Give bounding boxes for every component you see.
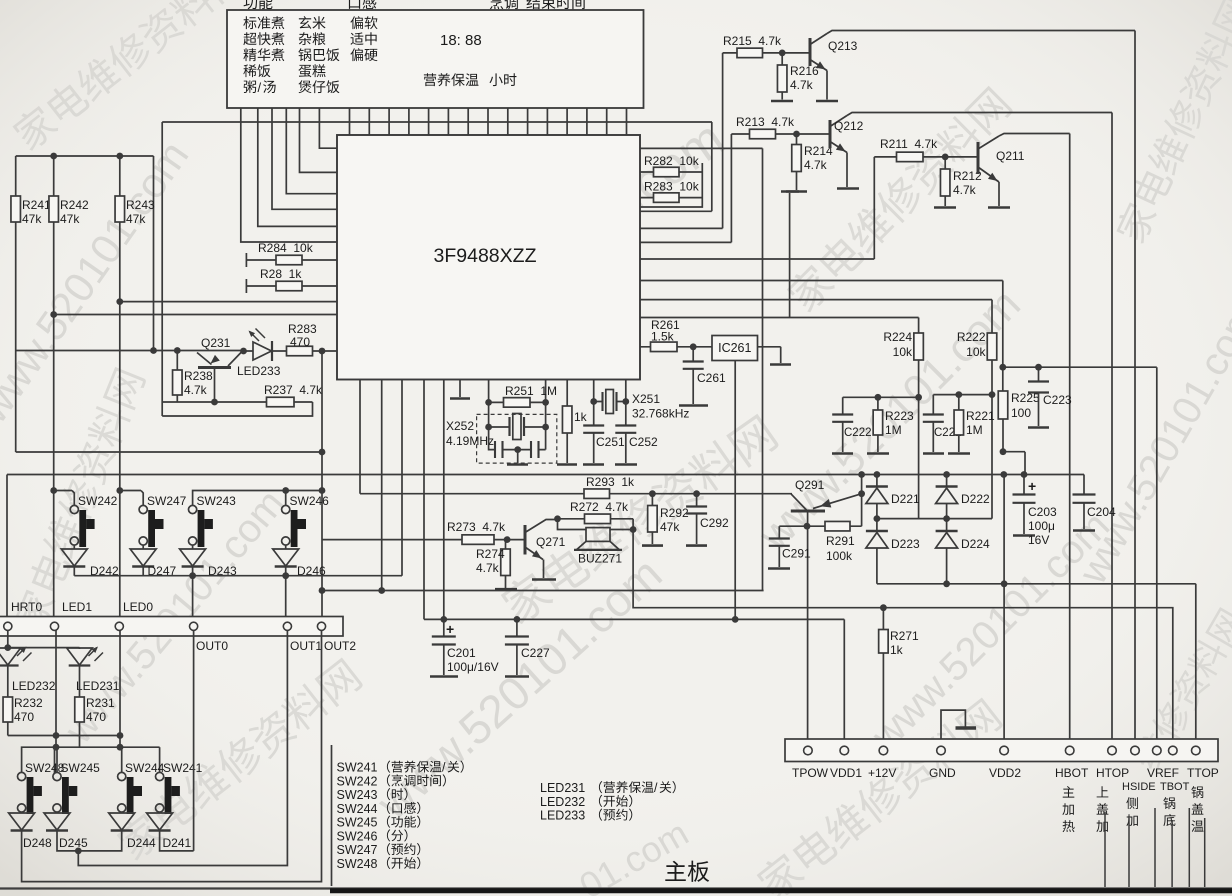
- wire: line 590.5 from key column to right vertical: [322, 590, 764, 592]
- svg-text:HRT0: HRT0: [11, 600, 42, 614]
- resistor R251: [504, 398, 531, 408]
- svg-text:LED232: LED232: [540, 795, 585, 809]
- switch SW248: [18, 772, 26, 780]
- resistor R283 10k with leads: [640, 197, 702, 199]
- svg-text:3F9488XZZ: 3F9488XZZ: [434, 245, 537, 267]
- svg-text:10k: 10k: [893, 345, 913, 359]
- switch SW244: [118, 772, 126, 780]
- panel text column: texture: [350, 16, 363, 29]
- svg-text:/: /: [442, 761, 446, 775]
- svg-text:R238: R238: [184, 369, 213, 383]
- pin caption TBOT chinese: [1163, 797, 1175, 809]
- svg-text:X251: X251: [632, 392, 660, 406]
- ground: [948, 452, 970, 455]
- junctions middle link: [874, 515, 881, 522]
- svg-text:SW245: SW245: [61, 761, 101, 775]
- svg-text:100μ/16V: 100μ/16V: [447, 660, 499, 674]
- svg-text:10k: 10k: [966, 345, 986, 359]
- svg-text:R283: R283: [288, 322, 317, 336]
- junctions on key return bus: [189, 572, 196, 579]
- wire: R282/R283 common tick to IC pin rail: [640, 163, 702, 207]
- resistor R273: [462, 535, 494, 545]
- svg-text:R251 1M: R251 1M: [505, 384, 557, 398]
- svg-text:R291: R291: [826, 534, 855, 548]
- junction R224/R223: [915, 394, 922, 401]
- capacitor C227: [516, 619, 518, 636]
- wire: IC pin column to C201: [443, 380, 445, 637]
- svg-text:SW246: SW246: [337, 829, 378, 843]
- svg-text:R232: R232: [14, 696, 43, 710]
- svg-text:C261: C261: [697, 371, 726, 385]
- ground: [557, 463, 577, 466]
- IC U1 3F9488XZZ microcontroller: [337, 135, 640, 380]
- junction R243-IC line: [116, 298, 123, 305]
- ground: [642, 544, 663, 547]
- transistor Q231: [208, 355, 220, 367]
- wire: base line to C291: [779, 525, 807, 527]
- svg-text:C203: C203: [1028, 505, 1057, 519]
- junction R221 top: [955, 391, 962, 398]
- wire: LED1 column down to key feeds: [55, 631, 57, 748]
- wire: SW245 feed stub: [56, 747, 58, 773]
- svg-text:C222: C222: [844, 427, 872, 439]
- resistor R231: [75, 697, 85, 722]
- ground: [781, 190, 799, 193]
- resistor R216: [777, 65, 787, 92]
- wire: Q211 collector rail to HBOT column: [999, 134, 1070, 747]
- junction R222/R221: [989, 391, 996, 398]
- wire: IC pins to R251 / X252: [489, 380, 546, 428]
- capacitor C203 electrolytic: [1023, 475, 1025, 495]
- wire: horizontal bus under panel: [162, 121, 712, 123]
- resistor R211: [897, 152, 924, 162]
- resistor R1k: [562, 406, 572, 433]
- wire: bus to IC left pin 1: [319, 108, 337, 148]
- wire: D245/D244 link: [57, 831, 122, 851]
- X252 load capacitors: [489, 427, 546, 450]
- wire: pull-up rail right end drop to Q231 feed node: [153, 156, 155, 351]
- resistor R221: [954, 410, 964, 435]
- svg-text:OUT1: OUT1: [290, 639, 322, 653]
- wire: bus B (HRT0 rail): [7, 474, 1084, 476]
- capacitor C221: [923, 415, 944, 422]
- svg-text:SW248: SW248: [337, 857, 378, 871]
- wire: IC261 right ground: [758, 347, 781, 363]
- svg-text:R242: R242: [60, 198, 89, 212]
- svg-text:R293 1k: R293 1k: [586, 475, 635, 489]
- svg-text:R284 10k: R284 10k: [258, 241, 314, 255]
- connector J2 holes: [4, 622, 12, 630]
- connector J1 (power board) bar: [785, 739, 1218, 762]
- wire: R224 column down: [918, 360, 920, 519]
- svg-text:R221: R221: [966, 409, 995, 423]
- svg-text:D248: D248: [23, 836, 52, 850]
- resistor R274 4.7k: [505, 540, 507, 549]
- svg-text:R231: R231: [86, 696, 115, 710]
- wire: Q231 box bottom loop: [162, 402, 312, 416]
- resistor R232: [3, 697, 13, 722]
- main board title 主板: [665, 861, 686, 881]
- resistor R273 4.7k with feed line: [322, 539, 506, 541]
- svg-text:R222: R222: [957, 330, 986, 344]
- resistor R292 47k: [651, 494, 653, 506]
- wire: legend border vertical: [331, 745, 333, 886]
- resistor R223: [873, 410, 883, 435]
- svg-text:R292: R292: [660, 506, 689, 520]
- resistor R28: [276, 281, 302, 291]
- resistor R216 4.7k: [781, 53, 783, 65]
- resistor R225: [998, 391, 1008, 419]
- wire: IC pin column to key return bus: [401, 380, 403, 576]
- svg-text:47k: 47k: [22, 212, 42, 226]
- svg-text:C251: C251: [596, 435, 625, 449]
- wire: drop to OUT1 return: [78, 631, 287, 866]
- resistor R238 with lead: [176, 351, 178, 371]
- resistor R271: [879, 630, 889, 654]
- wire: SW245 feed: [54, 747, 56, 773]
- wire: key return bus row1: [74, 575, 402, 577]
- svg-text:100: 100: [1011, 406, 1031, 420]
- wire: R242 junction to IC pin: [54, 314, 337, 316]
- ground: [816, 100, 838, 103]
- svg-text:Q211: Q211: [996, 149, 1025, 163]
- ground tee on rail 317.5: [789, 193, 791, 318]
- svg-text:VREF: VREF: [1147, 766, 1179, 780]
- diode D242: [61, 549, 87, 566]
- wire: node column from R283 junction down through key matrix: [321, 351, 323, 622]
- ground: [867, 452, 889, 455]
- svg-text:1M: 1M: [885, 423, 902, 437]
- capacitor C251: [593, 402, 595, 426]
- svg-text:SW245: SW245: [337, 816, 378, 830]
- svg-text:R271: R271: [890, 629, 919, 643]
- wire: IC pin rail to R213: [640, 134, 750, 242]
- panel text column: cooking functions: [243, 16, 256, 29]
- crystal X252 dashed box: [477, 414, 557, 463]
- svg-text:C227: C227: [521, 646, 550, 660]
- resistor R283b: [654, 193, 680, 203]
- svg-text:/: /: [258, 80, 262, 95]
- switch SW242: [70, 505, 78, 513]
- junction SW247 feed: [116, 487, 123, 494]
- diode D248: [9, 813, 35, 830]
- svg-text:R282 10k: R282 10k: [644, 154, 700, 168]
- panel header text (cut at top edge): [244, 0, 258, 9]
- svg-text:LED233: LED233: [540, 809, 585, 823]
- svg-text:1k: 1k: [890, 643, 904, 657]
- diode D241: [147, 813, 173, 830]
- svg-text:+: +: [1028, 478, 1036, 494]
- capacitor C261: [692, 347, 694, 361]
- svg-text:LED232: LED232: [12, 679, 56, 693]
- capacitor C252: [625, 402, 627, 426]
- wire: Q291 base node to TPOW: [807, 526, 809, 746]
- display panel box: [227, 10, 644, 108]
- svg-text:LED231: LED231: [76, 679, 120, 693]
- wire: supply bus 619.4 to VDD1: [424, 619, 844, 746]
- svg-text:4.7k: 4.7k: [476, 561, 500, 575]
- diode D247: [130, 549, 156, 566]
- resistor R237: [267, 397, 295, 407]
- wire: bus to IC left pin 2: [300, 108, 338, 172]
- svg-text:TBOT: TBOT: [1160, 781, 1190, 793]
- svg-text:+12V: +12V: [868, 766, 896, 780]
- svg-text:SW247: SW247: [337, 843, 378, 857]
- wire: Q213 collector rail to HSIDE column: [827, 31, 1135, 747]
- wire: C221/R221 top line: [933, 395, 992, 415]
- svg-text:470: 470: [290, 335, 310, 349]
- wire: IC pin rail to R224 (ground rail): [640, 318, 919, 334]
- svg-text:D241: D241: [163, 836, 192, 850]
- resistor R213: [750, 129, 776, 139]
- ground: [1073, 529, 1095, 532]
- ground: [430, 675, 458, 678]
- wire: Q231 feed line from R241 column: [16, 350, 244, 352]
- capacitor C204: [1083, 475, 1085, 495]
- pin caption HBOT chinese: [1063, 786, 1075, 797]
- svg-text:100μ: 100μ: [1028, 519, 1055, 533]
- svg-text:R216: R216: [790, 64, 819, 78]
- resistor R241: [11, 196, 21, 222]
- wire: R241 column: [15, 156, 17, 452]
- svg-text:OUT0: OUT0: [196, 639, 228, 653]
- svg-text:C223: C223: [1043, 393, 1072, 407]
- transistor Q271: [507, 539, 525, 541]
- wire: key feed row A: [8, 735, 120, 737]
- ground: [532, 578, 556, 581]
- svg-text:C252: C252: [629, 435, 658, 449]
- svg-text:LED1: LED1: [62, 600, 92, 614]
- ground: [771, 100, 793, 103]
- ground: [786, 190, 807, 193]
- wire: IC top pin stubs through bus to panel: [350, 108, 627, 135]
- page separation line: [0, 887, 1232, 889]
- capacitor C292: [696, 494, 698, 506]
- resistor R282: [654, 167, 680, 177]
- wire: R243 junction to IC pin: [120, 301, 337, 303]
- ground: [988, 206, 1010, 209]
- wire: key feed row B: [55, 746, 160, 748]
- resistor R222: [987, 333, 997, 360]
- LED LED231: [67, 648, 93, 665]
- wire: C222/R223 top line: [843, 397, 919, 414]
- svg-text:C204: C204: [1087, 505, 1116, 519]
- svg-text:R28 1k: R28 1k: [260, 267, 302, 281]
- capacitor C291: [778, 526, 780, 538]
- wire: IC pin rail to R222: [640, 300, 992, 333]
- svg-text:TPOW: TPOW: [792, 766, 829, 780]
- IC261 box: [712, 336, 758, 361]
- wire: bus to IC left pin 6: [241, 108, 337, 242]
- transistor Q212: [829, 120, 832, 148]
- svg-text:32.768kHz: 32.768kHz: [632, 407, 689, 421]
- ground: [832, 452, 853, 455]
- connector J1 holes: [804, 746, 813, 755]
- junctions on x=322 column: [319, 449, 326, 456]
- wire: bus to IC left pin 4: [272, 108, 337, 209]
- resistor R251 1M: [489, 401, 546, 403]
- svg-text:GND: GND: [929, 766, 956, 780]
- svg-text:R215 4.7k: R215 4.7k: [723, 34, 782, 48]
- resistor R274: [501, 549, 511, 576]
- X252 ground: [517, 450, 519, 463]
- ground: [615, 463, 637, 466]
- junctions feed row B: [53, 744, 60, 751]
- resistor R272 4.7k: [558, 518, 634, 520]
- wire: IC pin rail to VREF node: [640, 281, 1003, 368]
- ground: [1013, 534, 1035, 537]
- svg-text:4.7k: 4.7k: [804, 158, 828, 172]
- switch SW246: [282, 505, 290, 513]
- wire: IC pin column to supply bus 619.4: [423, 380, 425, 620]
- wire: SW244 feed: [120, 747, 122, 773]
- svg-text:C292: C292: [700, 516, 729, 530]
- decorative watermarks: [9, 0, 248, 153]
- wire: diode leads to key return bus: [74, 567, 285, 626]
- resistor R212: [940, 169, 950, 196]
- resistor R225 100: [1002, 367, 1004, 391]
- diode D246: [273, 549, 299, 566]
- wire: buzzer junction to TBOT column: [633, 519, 1173, 746]
- svg-text:18: 88: 18: 88: [440, 32, 482, 49]
- svg-text:SW242: SW242: [78, 494, 118, 508]
- svg-text:1k: 1k: [574, 410, 588, 424]
- svg-text:SW243: SW243: [337, 788, 378, 802]
- svg-text:4.7k: 4.7k: [790, 78, 814, 92]
- svg-text:D223: D223: [891, 537, 920, 551]
- svg-text:+: +: [446, 621, 454, 637]
- ground: [686, 544, 707, 547]
- svg-text:C201: C201: [447, 646, 476, 660]
- ground: [923, 452, 944, 455]
- svg-text:SW247: SW247: [147, 494, 187, 508]
- svg-text:R213 4.7k: R213 4.7k: [736, 115, 795, 129]
- svg-text:470: 470: [86, 710, 106, 724]
- ground: [495, 588, 517, 591]
- svg-text:SW242: SW242: [337, 774, 378, 788]
- svg-text:1.5k: 1.5k: [651, 330, 675, 344]
- svg-text:Q212: Q212: [834, 119, 864, 133]
- diode D221: [866, 485, 888, 487]
- svg-text:BUZ271: BUZ271: [578, 552, 622, 566]
- ground stub under IC: [459, 380, 461, 398]
- ground: [770, 363, 791, 366]
- wire: LED0 column down to key feeds: [119, 631, 121, 748]
- svg-text:R223: R223: [885, 409, 914, 423]
- ground: [956, 726, 977, 729]
- transistor Q291: [791, 510, 825, 513]
- wire: R225 bottom segment to bus B: [1003, 419, 1025, 475]
- wire: D248 return to OUT2: [22, 631, 322, 882]
- junctions diode bottom bus: [943, 580, 950, 587]
- resistor R291: [825, 521, 850, 531]
- resistor R243: [115, 196, 125, 222]
- resistor R292: [648, 506, 658, 533]
- resistor R215: [737, 48, 763, 58]
- pin caption HSIDE chinese: [1126, 797, 1138, 809]
- wire: bus left end drop to Q231 box left edge: [161, 122, 163, 416]
- svg-text:R272 4.7k: R272 4.7k: [570, 500, 629, 514]
- junctions supply bus: [514, 616, 521, 623]
- junction dots on pull-up rail: [50, 153, 57, 160]
- svg-text:470: 470: [14, 710, 34, 724]
- wire: SW241 feed: [159, 747, 161, 773]
- svg-text:D224: D224: [961, 537, 990, 551]
- crystal X252 4.19MHz symbol: [489, 426, 546, 428]
- svg-text:R237 4.7k: R237 4.7k: [264, 383, 323, 397]
- wire: R243 column: [119, 156, 121, 626]
- wire: IC buzzer pin rail to long vertical: [640, 148, 763, 590]
- svg-text:4.7k: 4.7k: [953, 183, 977, 197]
- ground: [1028, 426, 1049, 429]
- svg-text:LED231: LED231: [540, 781, 585, 795]
- resistor R282 10k with leads: [640, 171, 702, 173]
- svg-text:16V: 16V: [1028, 533, 1049, 547]
- svg-text:R283 10k: R283 10k: [644, 180, 700, 194]
- svg-text:4.7k: 4.7k: [184, 383, 208, 397]
- ground: [837, 187, 859, 190]
- resistor R223 1M: [877, 397, 879, 410]
- resistor R221 1M: [958, 395, 960, 410]
- resistor R212 4.7k: [944, 157, 946, 169]
- wire: IC pin rail to R211: [640, 157, 897, 259]
- switch SW247: [139, 505, 147, 513]
- svg-text:HBOT: HBOT: [1055, 766, 1089, 780]
- svg-text:IC261: IC261: [718, 341, 751, 355]
- resistor R242: [49, 196, 59, 222]
- wire: VDD2 column: [1003, 475, 1005, 747]
- wire: R222 column down: [991, 360, 993, 519]
- wire: IC pin rail to R215: [640, 53, 737, 229]
- panel text column: rice types: [299, 16, 311, 29]
- svg-text:SW243: SW243: [197, 494, 237, 508]
- wire: SW242 feed: [54, 491, 75, 507]
- wire: R242 column: [53, 156, 55, 626]
- resistor R261: [651, 342, 678, 352]
- svg-text:LED233: LED233: [237, 364, 281, 378]
- svg-text:HTOP: HTOP: [1096, 766, 1129, 780]
- wire: sensor tails below captions: [1105, 808, 1205, 887]
- switch SW241: [156, 772, 164, 780]
- pin caption TTOP chinese: [1191, 786, 1203, 798]
- wire: VREF line: [1003, 367, 1157, 746]
- resistor R214: [792, 145, 802, 172]
- junction C223 top: [1035, 364, 1042, 371]
- svg-text:Q271: Q271: [536, 535, 566, 549]
- svg-text:X252: X252: [446, 419, 474, 433]
- resistor R224: [914, 333, 924, 360]
- svg-text:TTOP: TTOP: [1187, 766, 1219, 780]
- svg-text:HSIDE: HSIDE: [1122, 781, 1156, 793]
- wire: HRT0 drop from bus B: [6, 475, 8, 623]
- svg-text:47k: 47k: [660, 520, 680, 534]
- svg-text:Q231: Q231: [201, 336, 231, 350]
- wire: D222 column: [946, 475, 948, 519]
- svg-text:OUT2: OUT2: [324, 639, 356, 653]
- LED LED233: [240, 348, 247, 355]
- buzzer BUZ271: [586, 528, 610, 542]
- junction R242-IC line: [50, 311, 57, 318]
- wire: SW243/SW246 feed line from x=322 column: [193, 491, 322, 507]
- resistor R284: [276, 255, 302, 265]
- wire: D221 column: [876, 475, 878, 519]
- resistor R214 4.7k: [796, 134, 798, 145]
- diode D222: [936, 485, 958, 487]
- wire: Q212 collector rail to HTOP column: [847, 113, 1112, 747]
- junctions bus B: [858, 471, 865, 478]
- wire: pull-up top rail: [16, 155, 154, 157]
- diode D245: [44, 813, 70, 830]
